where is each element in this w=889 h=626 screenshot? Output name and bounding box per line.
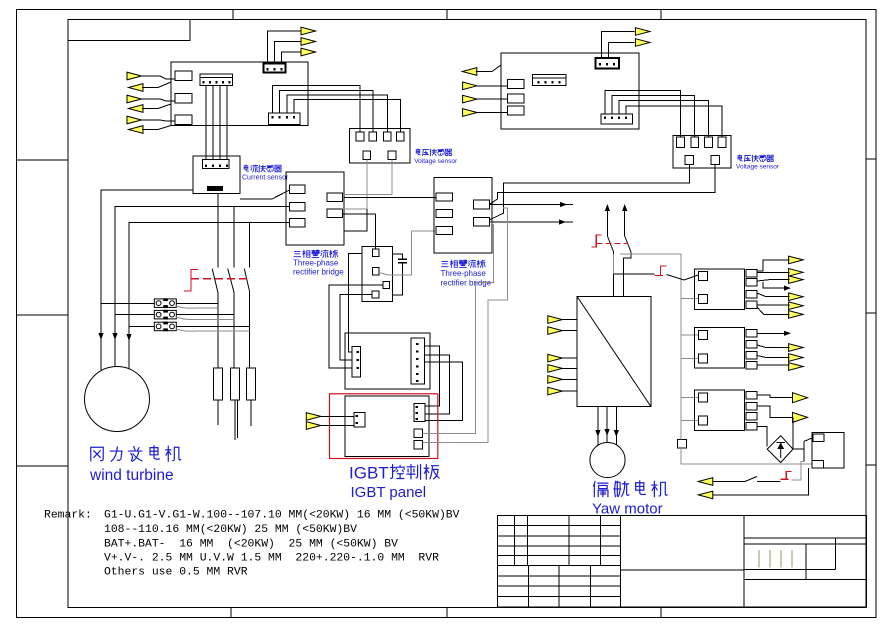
wires J2 to arrows: [268, 31, 303, 64]
inverter to yaw motor wires: [598, 407, 616, 445]
relay2 output arrows: [789, 344, 804, 352]
wires driver to panel connector: [424, 346, 462, 421]
breaker QF1 red linkage: [184, 269, 198, 291]
svg-text:IGBT: IGBT: [349, 464, 389, 483]
rectifier bridge 1: [286, 172, 344, 245]
label: current sensor: [244, 165, 248, 171]
svg-text:Others use 0.5 MM RVR: Others use 0.5 MM RVR: [104, 567, 248, 579]
relay K3: [694, 390, 757, 431]
label bridge 2: [441, 261, 448, 266]
gray wire filter to bridge2 rect3: [379, 231, 435, 275]
connector J5 strip: [533, 74, 567, 85]
svg-text:BAT+.BAT- 16 MM (<20KW) 25: BAT+.BAT- 16 MM (<20KW) 25 MM (<50KW) BV: [104, 538, 398, 550]
fuse F1: [214, 368, 223, 400]
panel right connector: [414, 404, 425, 422]
svg-text:Current sensor: Current sensor: [242, 175, 289, 182]
svg-text:Voltage sensor: Voltage sensor: [736, 164, 780, 171]
connector inside current sensor: [203, 159, 230, 168]
label voltage sensor 1: [416, 149, 420, 155]
IGBT panel red outline: [330, 394, 438, 459]
bridge2 dc output wires: [489, 205, 573, 223]
aux box: [812, 432, 844, 468]
terminal rect 2: [175, 94, 192, 104]
signal arrows top-left trio: [301, 27, 316, 35]
wires filter to driver: [329, 254, 383, 368]
fuse F2: [231, 368, 240, 400]
thermal switch red symbol 2: [780, 472, 791, 480]
svg-text:Three-phase: Three-phase: [293, 259, 339, 268]
wires J3 to voltage sensor 1: [273, 86, 401, 132]
svg-text:V+.V-. 2.5 MM U.V.W 1.5 MM 22: V+.V-. 2.5 MM U.V.W 1.5 MM 220+.220-.1.0…: [104, 553, 439, 565]
label bridge 1: [294, 251, 301, 256]
relay K1: [694, 269, 757, 310]
gray sense wires VS1 to bridge1: [342, 160, 392, 231]
block1 left arrows and stubs: [127, 72, 142, 80]
current sensor box: [193, 86, 240, 194]
bottom left-pointing arrows: [698, 478, 713, 486]
relay1 output arrows: [789, 256, 804, 264]
wires J4 to arrows: [602, 32, 635, 59]
label: wind turbine: [91, 447, 103, 461]
connector J3 (4-pin, bottom edge): [269, 113, 301, 124]
connector J2 (3-pin, top edge): [264, 64, 286, 73]
breaker verticals: [218, 194, 250, 368]
stamp ticks: [759, 550, 792, 568]
capacitor C1: [393, 254, 407, 295]
svg-text:Remark:: Remark:: [44, 510, 92, 522]
dc switch red linkage: [591, 235, 601, 247]
terminal block wiring: [101, 304, 250, 327]
phase wires to generator: [101, 190, 289, 370]
rectifier bridge 2: [434, 177, 492, 253]
panel square 1: [414, 429, 423, 438]
controller block 2: [501, 53, 639, 129]
yaw motor M2: [590, 442, 625, 477]
panel left arrows: [306, 413, 321, 421]
terminal blocks TB1-TB3: [154, 298, 176, 308]
bus square: [678, 440, 687, 449]
label: yaw motor: [594, 482, 608, 497]
terminal rect 1: [175, 71, 192, 81]
IGBT driver box: [345, 333, 430, 389]
svg-text:Three-phase: Three-phase: [441, 269, 487, 278]
connector J4 (3-pin top): [596, 58, 620, 69]
controller block 1: [171, 62, 308, 126]
title block table: [497, 515, 866, 607]
label voltage sensor 2: [738, 155, 742, 161]
IGBT panel board: [345, 396, 429, 457]
fuse tails: [218, 400, 251, 440]
dc link wires: [342, 198, 436, 249]
dc feed arrows up: [607, 211, 624, 236]
voltage sensor 1: [350, 129, 410, 163]
gray bus from dc switch to relay area: [614, 254, 681, 427]
diode rectifier diamond: [767, 436, 793, 463]
wire with NC contact to relay1: [614, 274, 699, 280]
thermal switch red symbol 1: [655, 266, 667, 276]
dc switch contacts: [607, 236, 631, 252]
remark notes: [44, 510, 460, 579]
svg-text:rectifier bridge: rectifier bridge: [293, 268, 344, 277]
connector J6 (4-pin bottom): [601, 114, 633, 124]
relay K2: [694, 327, 757, 369]
inverter block: [577, 296, 651, 406]
svg-text:IGBT panel: IGBT panel: [351, 484, 427, 501]
filter box (DC link): [362, 247, 393, 302]
gray wires bridge2 to IGBT panel: [422, 208, 507, 443]
diamond to aux box wire: [793, 438, 813, 462]
fuse F3: [247, 368, 256, 400]
inverter left arrows: [548, 316, 563, 324]
block2 left arrows: [462, 68, 477, 76]
svg-text:wind turbine: wind turbine: [89, 467, 174, 484]
svg-text:Voltage sensor: Voltage sensor: [414, 158, 458, 165]
ferrite bar: [207, 186, 223, 191]
generator M1 (wind turbine): [85, 367, 150, 432]
terminal rect 3: [175, 115, 192, 125]
panel left connector: [354, 413, 365, 427]
svg-text:G1-U.G1-V.G1-W.100--107.10 MM(: G1-U.G1-V.G1-W.100--107.10 MM(<20KW) 16 …: [104, 510, 460, 522]
driver right connector: [411, 338, 425, 384]
wires J6 to voltage sensor 2: [605, 91, 722, 138]
bus stubs to relay coils: [681, 299, 812, 465]
driver left connector: [352, 347, 360, 378]
svg-text:108--110.16 MM(<20KW) 25 MM (<: 108--110.16 MM(<20KW) 25 MM (<50KW)BV: [104, 524, 357, 536]
voltage sensor 2: [673, 136, 731, 168]
svg-text:rectifier bridge: rectifier bridge: [441, 279, 492, 288]
panel square 2: [414, 441, 423, 450]
relay3 output arrows: [793, 393, 808, 403]
connector J1 (5-pin strip): [200, 74, 233, 86]
breaker QF1 contacts: [212, 269, 250, 293]
wires J1 to sensor: [206, 86, 227, 161]
